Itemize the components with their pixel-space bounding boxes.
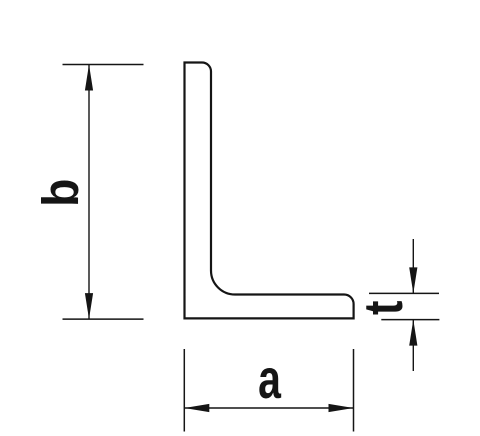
dimension t: lower arrow shaft [412,320,414,371]
dimension b: top extension line [63,64,144,66]
dimension t: lower extension line [381,319,439,321]
svg-text:b: b [33,179,89,207]
svg-text:a: a [258,349,281,411]
dimension t: lower arrowhead (points up) [409,320,417,346]
dimension a: right extension line [353,349,355,432]
dimension t: upper arrow shaft [412,239,414,293]
dimension b: vertical dimension line [88,65,90,320]
dimension a: horizontal dimension line [184,407,353,409]
dimension b: bottom arrowhead [85,293,93,319]
dimension t: upper arrowhead (points down) [409,267,417,293]
dimension a: left extension line [183,349,185,432]
dimension t: upper extension line [369,292,439,294]
dimension a: right arrowhead [329,404,354,412]
svg-text:t: t [352,301,414,315]
angle profile outline (L cross-section) [185,63,354,319]
dimension b: bottom extension line [63,318,144,320]
dimension b: top arrowhead [85,65,93,91]
dimension a: left arrowhead [184,404,209,412]
